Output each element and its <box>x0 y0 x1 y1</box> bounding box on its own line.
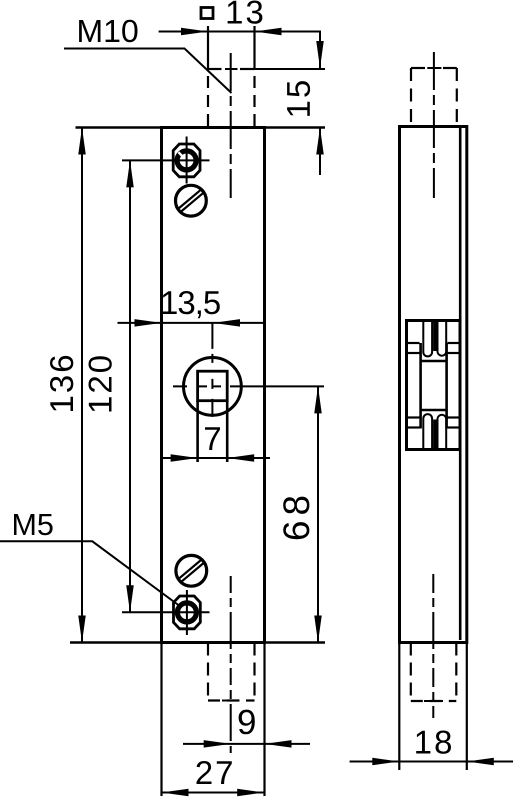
dim 13,5 arrow at centre line <box>213 319 240 327</box>
square spindle shaft hidden edges (top, dashed) <box>208 26 255 128</box>
square follower hole <box>198 371 228 401</box>
dim 15 arrow down <box>316 41 324 68</box>
dim 9 arrow left <box>204 740 231 748</box>
dim 15 line <box>319 32 321 69</box>
side shaft centre cross bar <box>427 67 441 69</box>
top spring centre post <box>433 322 436 351</box>
dim 18 line <box>350 761 513 763</box>
dim 68 line <box>317 386 319 642</box>
bottom tube hidden edges (dashed) <box>208 643 255 702</box>
dim 68 arrow down <box>314 616 322 643</box>
dim 120 line <box>129 160 131 612</box>
dim 7 line <box>162 457 271 459</box>
dim 7 arrow right <box>227 454 254 462</box>
shaft top extension line to 15-dim <box>255 68 326 70</box>
circle horizontal centre line / 68-dim top extension <box>173 385 325 387</box>
lower nut centre cross horizontal / 120-dim bottom extension <box>122 611 210 613</box>
lower nut ring <box>177 603 196 622</box>
upper barrel nut M10 <box>173 144 200 177</box>
dim 27 line <box>162 792 265 794</box>
gear cassette outer box <box>407 321 461 450</box>
M5 label <box>14 514 53 535</box>
dim text 27 <box>197 761 232 784</box>
dim 18 arrow left <box>372 758 399 766</box>
upper nut centre cross vertical <box>186 137 188 184</box>
M10 label <box>79 20 137 43</box>
lower nut centre cross vertical <box>186 590 188 635</box>
dim 27 arrow right <box>237 789 264 797</box>
bottom centre cross bar <box>222 700 240 702</box>
side body outline <box>400 127 467 643</box>
M10 leader line <box>64 49 232 94</box>
upper slotted screw <box>176 185 207 216</box>
side shaft hidden edges (dashed) <box>411 68 457 127</box>
slot sides / 7-dim extensions <box>196 401 199 462</box>
side left extension below body <box>398 643 400 771</box>
dim 7 arrow left <box>171 454 198 462</box>
dim 15 arrow up <box>316 128 324 155</box>
dim 13,5 arrow at plate edge <box>135 319 162 327</box>
side tube centre cross bar <box>424 700 443 702</box>
dim 13 arrow left <box>181 28 208 36</box>
dim 13 line <box>159 31 321 33</box>
dim 136 line <box>81 128 83 643</box>
dim 18 arrow right <box>467 758 494 766</box>
dim 136 arrow up <box>78 128 86 155</box>
dim text 120 <box>89 356 112 411</box>
dim text 68 <box>283 497 309 540</box>
dim 136 arrow down <box>78 616 86 643</box>
dim 120 arrow up <box>126 160 134 187</box>
top edge extension line <box>76 126 326 129</box>
right edge extension below plate <box>263 643 265 797</box>
lower barrel nut M5 <box>174 596 201 629</box>
side tube hidden edges (dashed) <box>411 643 457 702</box>
dim 13 arrow right <box>255 28 282 36</box>
dim text 7 <box>205 427 220 450</box>
upper nut centre cross horizontal / 120-dim top extension <box>122 159 210 161</box>
dim 13,5 line <box>118 322 265 324</box>
side faceplate inner line <box>459 127 462 641</box>
bottom spring clip (double U inverted) <box>423 414 446 448</box>
left edge extension below plate <box>160 643 162 797</box>
dim 9 arrow right <box>265 740 292 748</box>
shaft centre cross bar <box>225 68 238 70</box>
dim text 15 <box>287 81 310 116</box>
side shaft centre line <box>433 52 435 198</box>
dim text 136 <box>50 356 73 411</box>
upper nut ring <box>177 151 196 170</box>
faceplate outline (front view) <box>162 128 265 643</box>
side lower centre line <box>432 574 434 718</box>
circle vertical centre line <box>211 323 213 419</box>
square symbol <box>201 8 213 19</box>
dim 27 arrow left <box>162 789 189 797</box>
side right extension below body <box>466 643 468 771</box>
shaft centre line (dash-dot) <box>230 53 232 198</box>
lower slotted screw <box>176 555 207 586</box>
dim text 18 <box>416 731 451 754</box>
upper nut ring slit <box>178 152 182 156</box>
top spring clip (double U) <box>423 322 446 356</box>
dim text 9 <box>239 710 255 735</box>
dim text 13 <box>228 1 263 24</box>
dim 120 arrow down <box>126 585 134 612</box>
cassette inner posts <box>421 343 447 429</box>
dim text 13,5 <box>163 291 220 318</box>
bottom centre line (dash-dot) <box>230 576 232 753</box>
bottom edge extension line <box>70 641 325 644</box>
M5 leader line <box>0 541 181 607</box>
bottom spring centre post <box>433 420 436 449</box>
cassette shoulder lines <box>408 343 459 428</box>
dim 9 line <box>183 743 310 745</box>
dim 68 arrow up <box>314 386 322 413</box>
spindle hole circle <box>184 358 242 416</box>
